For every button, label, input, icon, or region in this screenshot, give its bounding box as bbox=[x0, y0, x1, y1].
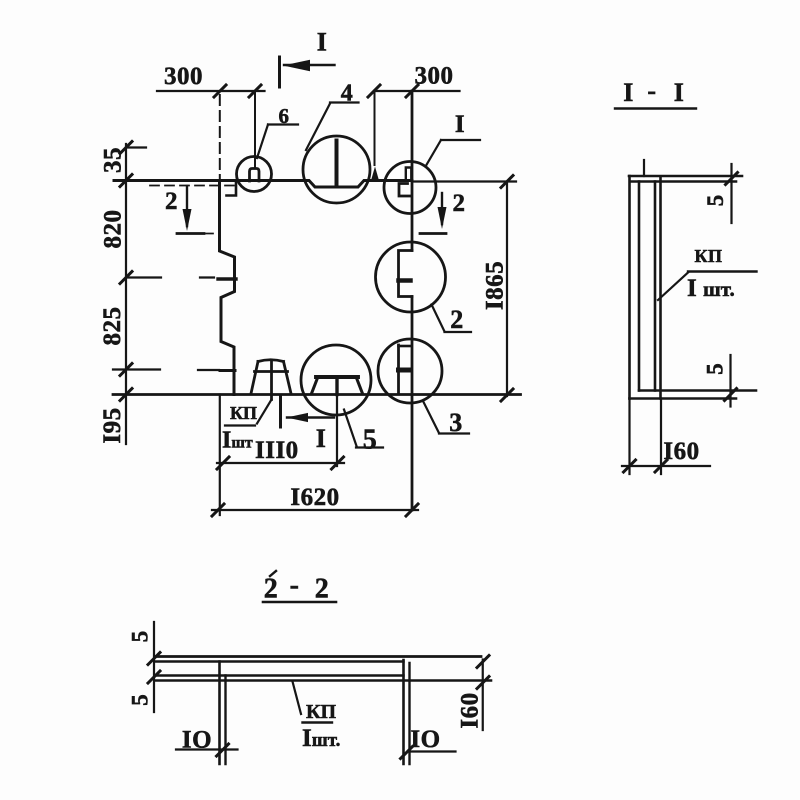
svg-text:КП: КП bbox=[306, 701, 337, 723]
svg-text:2: 2 bbox=[450, 305, 464, 334]
svg-text:2: 2 bbox=[315, 574, 330, 605]
svg-text:Iшт.: Iшт. bbox=[302, 725, 340, 752]
svg-text:КП: КП bbox=[230, 403, 257, 423]
svg-text:IO: IO bbox=[410, 726, 440, 753]
svg-text:2: 2 bbox=[165, 188, 178, 215]
svg-text:4: 4 bbox=[341, 81, 354, 107]
svg-text:III0: III0 bbox=[255, 437, 299, 464]
svg-text:I620: I620 bbox=[290, 484, 339, 511]
svg-text:IO: IO bbox=[182, 727, 212, 754]
svg-text:5: 5 bbox=[128, 694, 153, 706]
svg-text:2: 2 bbox=[453, 190, 466, 217]
svg-text:300: 300 bbox=[415, 63, 454, 90]
svg-text:I: I bbox=[674, 78, 685, 107]
svg-text:3: 3 bbox=[449, 408, 463, 437]
svg-text:2: 2 bbox=[264, 574, 279, 605]
svg-text:5: 5 bbox=[128, 631, 153, 643]
svg-text:I: I bbox=[317, 28, 328, 57]
svg-text:5: 5 bbox=[703, 195, 728, 207]
svg-text:-: - bbox=[290, 570, 300, 601]
svg-text:300: 300 bbox=[164, 63, 203, 90]
svg-text:I60: I60 bbox=[457, 692, 484, 728]
svg-text:I: I bbox=[316, 424, 327, 453]
svg-text:6: 6 bbox=[279, 104, 290, 128]
svg-text:I: I bbox=[623, 78, 634, 107]
svg-text:I60: I60 bbox=[663, 438, 699, 465]
svg-text:I95: I95 bbox=[99, 407, 126, 443]
svg-text:825: 825 bbox=[99, 307, 126, 346]
svg-text:820: 820 bbox=[100, 210, 127, 249]
svg-text:35: 35 bbox=[100, 147, 127, 173]
svg-text:-: - bbox=[647, 76, 656, 105]
svg-text:КП: КП bbox=[694, 246, 722, 266]
svg-text:Iшт: Iшт bbox=[222, 428, 253, 454]
svg-text:I: I bbox=[455, 111, 465, 138]
svg-text:5: 5 bbox=[703, 363, 728, 375]
svg-text:5: 5 bbox=[363, 425, 378, 456]
svg-text:I шт.: I шт. bbox=[687, 275, 735, 302]
svg-text:I865: I865 bbox=[482, 261, 509, 310]
